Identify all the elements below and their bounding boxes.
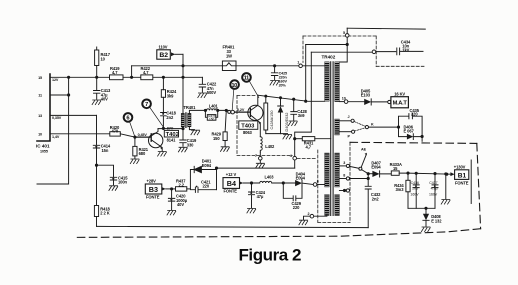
- capacitor C428: [291, 98, 308, 120]
- capacitor C434: [397, 40, 423, 55]
- resistor R429: [212, 110, 228, 146]
- node 2: [304, 212, 327, 220]
- svg-text:20%: 20%: [279, 84, 287, 88]
- svg-text:10: 10: [38, 133, 42, 137]
- pin 13: [38, 114, 62, 120]
- ground emitter rail: [283, 134, 292, 139]
- box B3: [145, 179, 175, 200]
- node dot 12V rail: [215, 167, 217, 169]
- svg-text:TR402: TR402: [322, 54, 336, 59]
- wire line B riser: [305, 45, 307, 102]
- svg-text:15n: 15n: [102, 148, 109, 153]
- svg-text:160V: 160V: [429, 192, 438, 196]
- svg-text:8063: 8063: [243, 130, 253, 135]
- svg-text:13: 13: [38, 114, 42, 118]
- ground mid B1: [445, 173, 447, 199]
- svg-text:160V: 160V: [410, 192, 419, 196]
- svg-text:12V: 12V: [52, 78, 59, 82]
- svg-text:8141: 8141: [167, 137, 177, 142]
- transistor T403: [235, 95, 264, 137]
- svg-text:+12 V: +12 V: [226, 172, 237, 177]
- diode D407: [368, 160, 391, 177]
- svg-text:4,7: 4,7: [306, 145, 312, 150]
- node dot: [162, 127, 164, 129]
- svg-text:E 067: E 067: [404, 129, 415, 134]
- svg-text:15: 15: [38, 76, 42, 80]
- svg-text:B4: B4: [227, 179, 236, 188]
- switch contact P: [339, 130, 354, 139]
- connector node T403 base: [228, 108, 245, 114]
- node dot L403: [282, 182, 284, 184]
- svg-text:6: 6: [317, 179, 319, 183]
- test point circle 10: [230, 80, 239, 110]
- ground C420: [167, 210, 176, 215]
- svg-text:2n2: 2n2: [166, 115, 174, 120]
- resistor R422: [141, 66, 153, 80]
- svg-text:3k9: 3k9: [167, 94, 174, 99]
- transistor T402: [135, 126, 179, 151]
- svg-text:1kV: 1kV: [402, 47, 409, 52]
- svg-text:10µ: 10µ: [412, 187, 418, 191]
- resistor R418: [94, 165, 110, 226]
- svg-text:+130V: +130V: [454, 165, 466, 170]
- svg-text:IC 401: IC 401: [36, 144, 50, 149]
- svg-text:150: 150: [213, 136, 220, 141]
- tap 9 lower: [339, 189, 349, 192]
- diode D401: [190, 159, 216, 189]
- node dot: [182, 65, 184, 67]
- capacitor C421: [190, 179, 216, 192]
- svg-text:TR401: TR401: [184, 105, 197, 110]
- trimmer C428A: [264, 95, 274, 134]
- ground R421: [130, 159, 139, 164]
- node dot D407 anode: [367, 173, 369, 175]
- capacitor C414: [93, 115, 111, 165]
- node 4 riser: [290, 52, 312, 168]
- svg-text:11: 11: [38, 94, 42, 98]
- node dot: [68, 94, 70, 96]
- switch pole K: [354, 122, 398, 132]
- node dot: [68, 76, 70, 78]
- svg-text:L401: L401: [209, 103, 219, 108]
- node A base T402: [134, 133, 148, 138]
- svg-text:470: 470: [112, 128, 119, 133]
- svg-text:P: P: [348, 135, 351, 139]
- wire pin15 lower bus: [50, 76, 202, 78]
- wire 12V rail: [217, 168, 295, 190]
- svg-text:10: 10: [231, 83, 237, 89]
- svg-text:E094: E094: [371, 164, 381, 169]
- node dot: [162, 76, 164, 78]
- svg-text:220: 220: [411, 112, 418, 117]
- node 5 and top line: [339, 28, 425, 62]
- inductor L402: [260, 137, 275, 152]
- resistor R417: [95, 47, 111, 77]
- ground: [270, 81, 279, 86]
- svg-text:L403: L403: [265, 174, 275, 179]
- collector bus wire: [258, 95, 325, 101]
- wire L401 to T403 base: [218, 110, 231, 112]
- svg-text:47µ: 47µ: [257, 194, 264, 199]
- svg-text:E 132: E 132: [431, 218, 442, 223]
- node dot: [225, 109, 227, 111]
- svg-text:2: 2: [308, 212, 310, 216]
- ground TR401 secondary: [191, 130, 200, 135]
- emitter rail wire: [266, 133, 288, 135]
- resistor R426: [205, 110, 217, 121]
- svg-text:C436: C436: [411, 181, 419, 185]
- wire node1 to TR402: [302, 63, 326, 66]
- ground C419: [178, 147, 187, 152]
- wire line C with connector: [311, 50, 396, 54]
- tap 3: [339, 161, 358, 169]
- svg-text:AE: AE: [361, 148, 367, 152]
- box B4: [223, 172, 259, 193]
- svg-text:+28V: +28V: [147, 179, 157, 184]
- capacitor C432: [365, 174, 381, 228]
- inductor L401: [204, 103, 219, 111]
- test point circle 11: [242, 73, 259, 97]
- wire riser to upper bus: [131, 66, 133, 78]
- solid border right: [470, 160, 472, 204]
- node dot B3 out: [171, 188, 173, 190]
- resistor R433A: [390, 162, 452, 175]
- svg-text:7: 7: [145, 102, 148, 108]
- svg-text:E103: E103: [361, 93, 371, 98]
- svg-text:1055: 1055: [40, 150, 48, 154]
- wire pin11: [50, 94, 69, 96]
- node dot: [182, 76, 184, 78]
- capacitor C437: [429, 173, 438, 209]
- svg-text:330: 330: [187, 143, 194, 148]
- inductor L403: [259, 174, 296, 183]
- svg-text:10: 10: [342, 97, 346, 101]
- svg-text:FONTE: FONTE: [224, 189, 238, 194]
- svg-text:3m3: 3m3: [396, 187, 405, 192]
- node 10: [339, 97, 364, 104]
- svg-text:B1: B1: [458, 172, 467, 179]
- svg-text:0,35V: 0,35V: [52, 116, 62, 120]
- svg-text:220: 220: [293, 205, 300, 210]
- resistor R424: [161, 77, 177, 112]
- ground C428: [288, 121, 297, 126]
- ground node 2: [299, 220, 308, 225]
- test point circle 7: [142, 100, 163, 127]
- capacitor C419: [180, 129, 197, 148]
- svg-text:10: 10: [101, 57, 106, 62]
- dashed border bottom: [73, 142, 481, 237]
- svg-text:0,2V: 0,2V: [237, 108, 245, 112]
- svg-text:E094: E094: [202, 163, 212, 168]
- test point circle 6: [124, 113, 135, 136]
- diode D403: [278, 97, 290, 134]
- transformer TR402 primary winding: [325, 62, 330, 216]
- node dot: [131, 76, 133, 78]
- box B1: [446, 165, 469, 186]
- capacitor C413: [94, 77, 112, 101]
- svg-text:D403/E032: D403/E032: [285, 113, 289, 132]
- svg-text:M.A.T: M.A.T: [393, 101, 408, 107]
- capacitor C420: [168, 189, 187, 210]
- tap 8: [339, 174, 369, 180]
- svg-text:5: 5: [343, 31, 345, 35]
- fuse FR401: [222, 45, 236, 71]
- pin 11: [38, 94, 42, 98]
- svg-text:C428A/150: C428A/150: [270, 111, 274, 130]
- node 7: [255, 152, 262, 163]
- wire B2 riser: [182, 54, 184, 113]
- node 6: [313, 179, 324, 186]
- svg-text:680: 680: [139, 151, 146, 156]
- node dot: [96, 76, 98, 78]
- svg-text:3n9: 3n9: [298, 113, 306, 118]
- box B2: [157, 45, 183, 60]
- svg-text:T403: T403: [241, 124, 255, 130]
- ground C415: [109, 186, 118, 191]
- transformer TR402 secondary winding: [335, 62, 340, 216]
- wire pin13: [50, 114, 97, 116]
- svg-text:220: 220: [203, 184, 210, 189]
- node dot: [182, 128, 184, 130]
- svg-text:B2: B2: [159, 52, 168, 59]
- capacitor C418: [161, 111, 177, 129]
- wire pin10: [50, 133, 110, 135]
- svg-text:K: K: [371, 122, 374, 126]
- svg-text:FONTE: FONTE: [455, 180, 469, 185]
- dashed box T403: [237, 96, 350, 223]
- svg-text:1: 1: [297, 61, 299, 65]
- ground R429: [221, 147, 230, 152]
- switch contact J: [339, 115, 354, 122]
- capacitor C429: [283, 183, 302, 210]
- svg-text:L402: L402: [265, 144, 275, 149]
- svg-text:C437: C437: [429, 181, 437, 185]
- svg-text:40V: 40V: [177, 202, 184, 207]
- ground node 7: [256, 163, 265, 168]
- svg-text:7: 7: [255, 154, 257, 158]
- svg-text:Figura 2: Figura 2: [239, 246, 302, 265]
- svg-text:40V: 40V: [101, 97, 108, 102]
- resistor R437: [176, 179, 191, 192]
- upper bus wire: [132, 65, 299, 67]
- capacitor C422: [199, 77, 217, 95]
- capacitor C415: [97, 165, 129, 185]
- svg-text:B3: B3: [149, 185, 158, 194]
- svg-text:150: 150: [209, 118, 215, 122]
- svg-text:1,4V: 1,4V: [52, 135, 60, 139]
- node dot B4: [250, 182, 252, 184]
- resistor R434: [394, 172, 410, 208]
- capacitor C424: [249, 183, 266, 208]
- pin 15: [38, 76, 59, 82]
- transformer TR402 core: [322, 54, 336, 215]
- svg-text:FONTE: FONTE: [146, 195, 160, 200]
- svg-text:2n2: 2n2: [372, 196, 380, 201]
- bottom rail wire: [97, 226, 369, 227]
- diode D405: [361, 89, 388, 106]
- resistor R419: [110, 66, 124, 80]
- transformer TR401: [181, 105, 205, 130]
- svg-text:110V: 110V: [159, 45, 168, 50]
- diode D408: [423, 207, 442, 226]
- svg-text:500V: 500V: [207, 90, 217, 95]
- svg-text:1W: 1W: [226, 54, 232, 59]
- svg-text:4,7: 4,7: [143, 70, 149, 75]
- ground C424: [247, 208, 256, 213]
- svg-text:E094: E094: [296, 175, 306, 180]
- resistor R431: [295, 137, 331, 150]
- ground: [198, 93, 207, 98]
- svg-text:4,7: 4,7: [112, 70, 118, 75]
- box D406 C435: [397, 108, 423, 142]
- capacitor C425: [271, 65, 287, 88]
- pin 10: [38, 133, 60, 139]
- svg-text:4,7µ: 4,7µ: [431, 187, 438, 191]
- ground: [92, 100, 101, 105]
- B1 filter bottom rail: [408, 207, 435, 209]
- svg-text:2 2 K: 2 2 K: [100, 211, 109, 216]
- box MAT: [388, 91, 409, 107]
- capacitor C436: [410, 172, 419, 208]
- resistor R420: [110, 125, 135, 137]
- ground D408: [421, 227, 430, 232]
- wire 87V row: [158, 128, 183, 130]
- diode D404: [295, 171, 313, 186]
- svg-text:J: J: [348, 115, 350, 119]
- wire line B: [306, 44, 348, 46]
- node dot bus right: [305, 100, 307, 102]
- resistor R421: [133, 137, 149, 158]
- switch AE: [359, 148, 368, 174]
- dashed top enclosure: [303, 36, 424, 66]
- svg-text:100n: 100n: [118, 180, 128, 185]
- node dot: [95, 164, 97, 166]
- wire left riser x68.6: [37, 77, 69, 184]
- svg-text:16 KV: 16 KV: [394, 91, 405, 96]
- svg-text:3: 3: [343, 161, 345, 165]
- svg-text:8: 8: [343, 174, 345, 178]
- IC U401 body edge: [36, 74, 50, 154]
- node 1: [297, 61, 302, 68]
- ground T402 emitter: [158, 152, 167, 157]
